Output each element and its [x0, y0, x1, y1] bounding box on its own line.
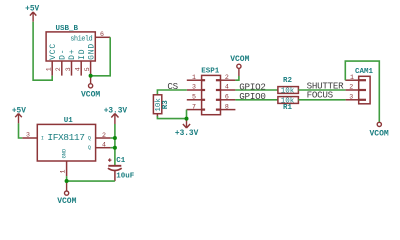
pin 2 U1: [96, 137, 111, 139]
svg-text:CS: CS: [167, 81, 178, 92]
svg-text:Q: Q: [88, 135, 91, 141]
pin 3 USB: [71, 61, 73, 76]
svg-text:1: 1: [192, 74, 196, 81]
junction +3.3V at ESP1 pin7: [185, 117, 189, 121]
svg-text:FOCUS: FOCUS: [307, 90, 334, 101]
wire shield to VCOM: [91, 37, 111, 76]
pin 1 CAM1: [359, 79, 366, 81]
junction VCOM at U1 pin1: [65, 179, 69, 183]
svg-text:GND: GND: [87, 43, 96, 60]
connector USB_B: [46, 25, 96, 61]
pin 3 U1: [22, 137, 37, 139]
pin 4 ESP1: [216, 89, 221, 91]
power VCOM PWR6: [230, 55, 249, 76]
wire R3 to +3.3V junction: [156, 114, 158, 117]
svg-text:IFX8117: IFX8117: [47, 132, 84, 143]
junction +3.3V at U1 pin2: [113, 136, 117, 140]
svg-text:2: 2: [349, 84, 353, 91]
svg-text:6: 6: [100, 31, 104, 38]
svg-text:4: 4: [102, 142, 106, 149]
wire SHUTTER net: [298, 89, 345, 91]
power VCOM PWR5: [57, 181, 76, 206]
pin 2 USB: [61, 61, 63, 76]
svg-text:Q: Q: [88, 145, 91, 151]
svg-text:VCOM: VCOM: [81, 90, 100, 99]
connector CAM1: [355, 68, 374, 104]
pin 6 USB shield: [95, 36, 110, 38]
svg-text:R1: R1: [283, 104, 293, 112]
wire junction to ESP1 pin7: [186, 110, 188, 119]
svg-text:4: 4: [225, 84, 229, 91]
pin 3 CAM1: [359, 99, 366, 101]
svg-text:D-: D-: [58, 49, 67, 60]
svg-text:8: 8: [225, 103, 229, 110]
power +3.3V PWR4: [104, 107, 128, 124]
svg-text:shield: shield: [70, 35, 92, 43]
svg-text:10uF: 10uF: [116, 173, 135, 181]
wire CS net: [157, 90, 186, 95]
svg-text:7: 7: [192, 103, 196, 110]
svg-text:I: I: [41, 135, 44, 141]
regulator U1 IFX8117: [37, 117, 95, 161]
svg-text:ID: ID: [78, 49, 87, 60]
power VCOM PWR2: [81, 76, 100, 100]
wire C1 to U1 pin1: [67, 180, 115, 182]
svg-text:+3.3V: +3.3V: [175, 130, 199, 138]
svg-text:GPIO0: GPIO0: [239, 91, 265, 102]
svg-text:C1: C1: [116, 157, 126, 165]
svg-text:VCOM: VCOM: [369, 129, 388, 138]
connector ESP1: [201, 68, 220, 115]
pin 2 CAM1: [359, 89, 366, 91]
svg-text:GND: GND: [62, 149, 68, 159]
wire FOCUS net: [298, 99, 345, 101]
wire VCOM to ESP1 pin2: [235, 76, 239, 80]
pin 4 USB: [80, 61, 82, 76]
junction VCOM at USB GND: [89, 74, 93, 78]
svg-text:1: 1: [350, 74, 354, 81]
pin 1 USB: [51, 61, 53, 76]
svg-text:R3: R3: [162, 100, 170, 110]
pin 2 ESP1: [216, 79, 221, 81]
svg-text:6: 6: [225, 94, 229, 101]
svg-text:R2: R2: [283, 77, 293, 85]
svg-text:1: 1: [46, 67, 53, 71]
svg-text:VCOM: VCOM: [230, 55, 249, 64]
wire pin2 to rail: [111, 137, 115, 139]
svg-text:1: 1: [60, 169, 67, 173]
wire GPIO2 net: [235, 89, 278, 91]
svg-text:ESP1: ESP1: [201, 68, 220, 76]
pin 5 ESP1: [202, 99, 206, 101]
power VCOM PWR8: [369, 122, 388, 138]
pin 8 ESP1: [216, 108, 221, 110]
svg-text:3: 3: [26, 132, 30, 139]
svg-text:2: 2: [225, 74, 229, 81]
svg-text:3: 3: [349, 94, 353, 101]
svg-text:D+: D+: [68, 49, 77, 60]
pin 7 ESP1: [202, 108, 206, 110]
junction +3.3V at U1 pin4: [113, 146, 117, 150]
wire CAM1 pin1 to VCOM: [345, 61, 379, 122]
svg-text:3: 3: [65, 67, 72, 71]
wire +5V to U1 pin3: [19, 123, 23, 138]
svg-text:VCC: VCC: [49, 43, 58, 60]
svg-text:2: 2: [102, 132, 106, 139]
svg-text:5: 5: [192, 94, 196, 101]
power +5V PWR1: [25, 6, 39, 22]
pin 1 U1: [66, 161, 68, 176]
pin 4 U1: [96, 147, 111, 149]
svg-text:4: 4: [75, 67, 82, 71]
power +5V PWR3: [12, 107, 26, 123]
resistor R3: [153, 95, 169, 114]
svg-text:5: 5: [84, 67, 91, 71]
power +3.3V PWR7: [175, 120, 199, 138]
wire +3.3V rail to C1: [114, 124, 116, 165]
resistor R2: [278, 77, 299, 96]
pin 5 USB: [90, 61, 92, 76]
svg-text:VCOM: VCOM: [57, 197, 76, 206]
pin 3 ESP1: [202, 89, 206, 91]
capacitor C1: [108, 157, 135, 181]
pin 1 ESP1: [202, 79, 206, 81]
wire GPIO0 net: [235, 99, 278, 101]
svg-text:2: 2: [55, 67, 62, 71]
svg-text:3: 3: [192, 84, 196, 91]
svg-text:10k: 10k: [281, 87, 295, 95]
wire +5V to USB VCC: [33, 22, 52, 80]
wire pin4 to rail: [111, 147, 115, 149]
pin 6 ESP1: [216, 99, 221, 101]
resistor R1: [278, 97, 299, 112]
svg-text:CAM1: CAM1: [355, 68, 374, 76]
